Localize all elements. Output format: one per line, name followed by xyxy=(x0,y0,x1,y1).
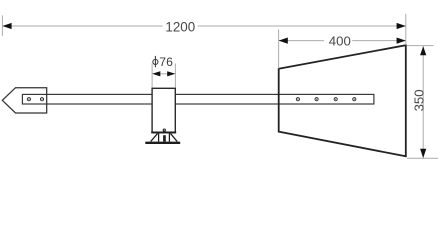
dim 350 bottom extension line xyxy=(407,157,438,159)
svg-text:1200: 1200 xyxy=(165,19,195,34)
plate hole 4 xyxy=(353,98,356,101)
support left wall xyxy=(158,133,160,141)
dim 400 right arrow xyxy=(397,38,406,44)
dim phi76 label phi symbol xyxy=(153,56,158,67)
dim 400 line right part xyxy=(352,40,406,42)
dim 1200 line left part xyxy=(2,25,162,27)
support right wall xyxy=(168,133,170,141)
dim phi76 right arrow xyxy=(167,71,175,76)
center block xyxy=(152,88,175,132)
dim phi76 left arrow xyxy=(152,71,160,76)
dim 350 line xyxy=(422,46,424,158)
plate hole 1 xyxy=(296,98,299,101)
horn trapezoid xyxy=(279,45,406,156)
dim 350 top extension line xyxy=(407,45,434,47)
dim phi76 line xyxy=(158,73,170,75)
dim 350 top arrow xyxy=(420,46,426,55)
dim 1200 line right part xyxy=(198,25,406,27)
dim 1200 right extension line xyxy=(405,14,407,45)
pointed head xyxy=(2,88,46,113)
dim 350 bottom arrow xyxy=(420,149,426,158)
dim 1200 right arrow xyxy=(397,23,406,29)
dim phi76 left extension line xyxy=(151,64,153,88)
support right diagonal leg xyxy=(171,134,178,142)
shaft bar xyxy=(22,94,374,104)
support left diagonal leg xyxy=(151,134,158,142)
dim 400 left extension line xyxy=(278,30,280,69)
ground base line xyxy=(145,142,180,144)
dim 1200 left extension line xyxy=(1,15,3,35)
head hole left xyxy=(27,98,30,101)
dim 1200 left arrow xyxy=(2,23,11,29)
dim phi76 right extension line xyxy=(174,64,176,88)
svg-text:400: 400 xyxy=(329,33,351,48)
head hole right xyxy=(40,98,43,101)
dim 400 line left part xyxy=(279,40,324,42)
plate hole 3 xyxy=(334,98,337,101)
plate hole 2 xyxy=(315,98,318,101)
dim 400 left arrow xyxy=(279,38,288,44)
pivot pin circle xyxy=(163,129,165,131)
support bolt xyxy=(163,135,166,141)
block bottom thick edge xyxy=(151,131,176,133)
svg-text:76: 76 xyxy=(159,55,173,69)
svg-text:350: 350 xyxy=(412,89,427,111)
